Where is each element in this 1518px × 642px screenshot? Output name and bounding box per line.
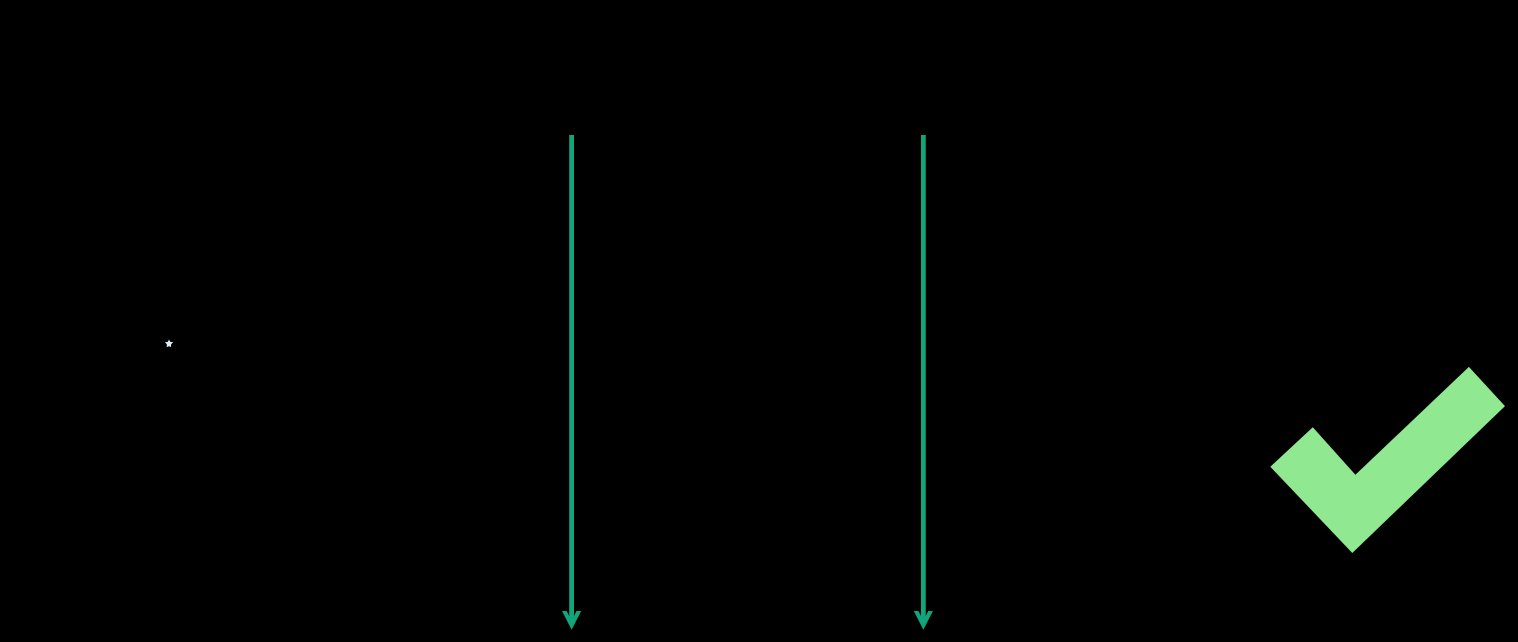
arrow 2 head (914, 611, 933, 630)
wire: arrow 2 shaft (921, 135, 926, 623)
checkmark (1270, 367, 1505, 553)
star (165, 340, 173, 348)
arrow 1 head (562, 611, 581, 630)
wire: arrow 1 shaft (569, 135, 574, 623)
